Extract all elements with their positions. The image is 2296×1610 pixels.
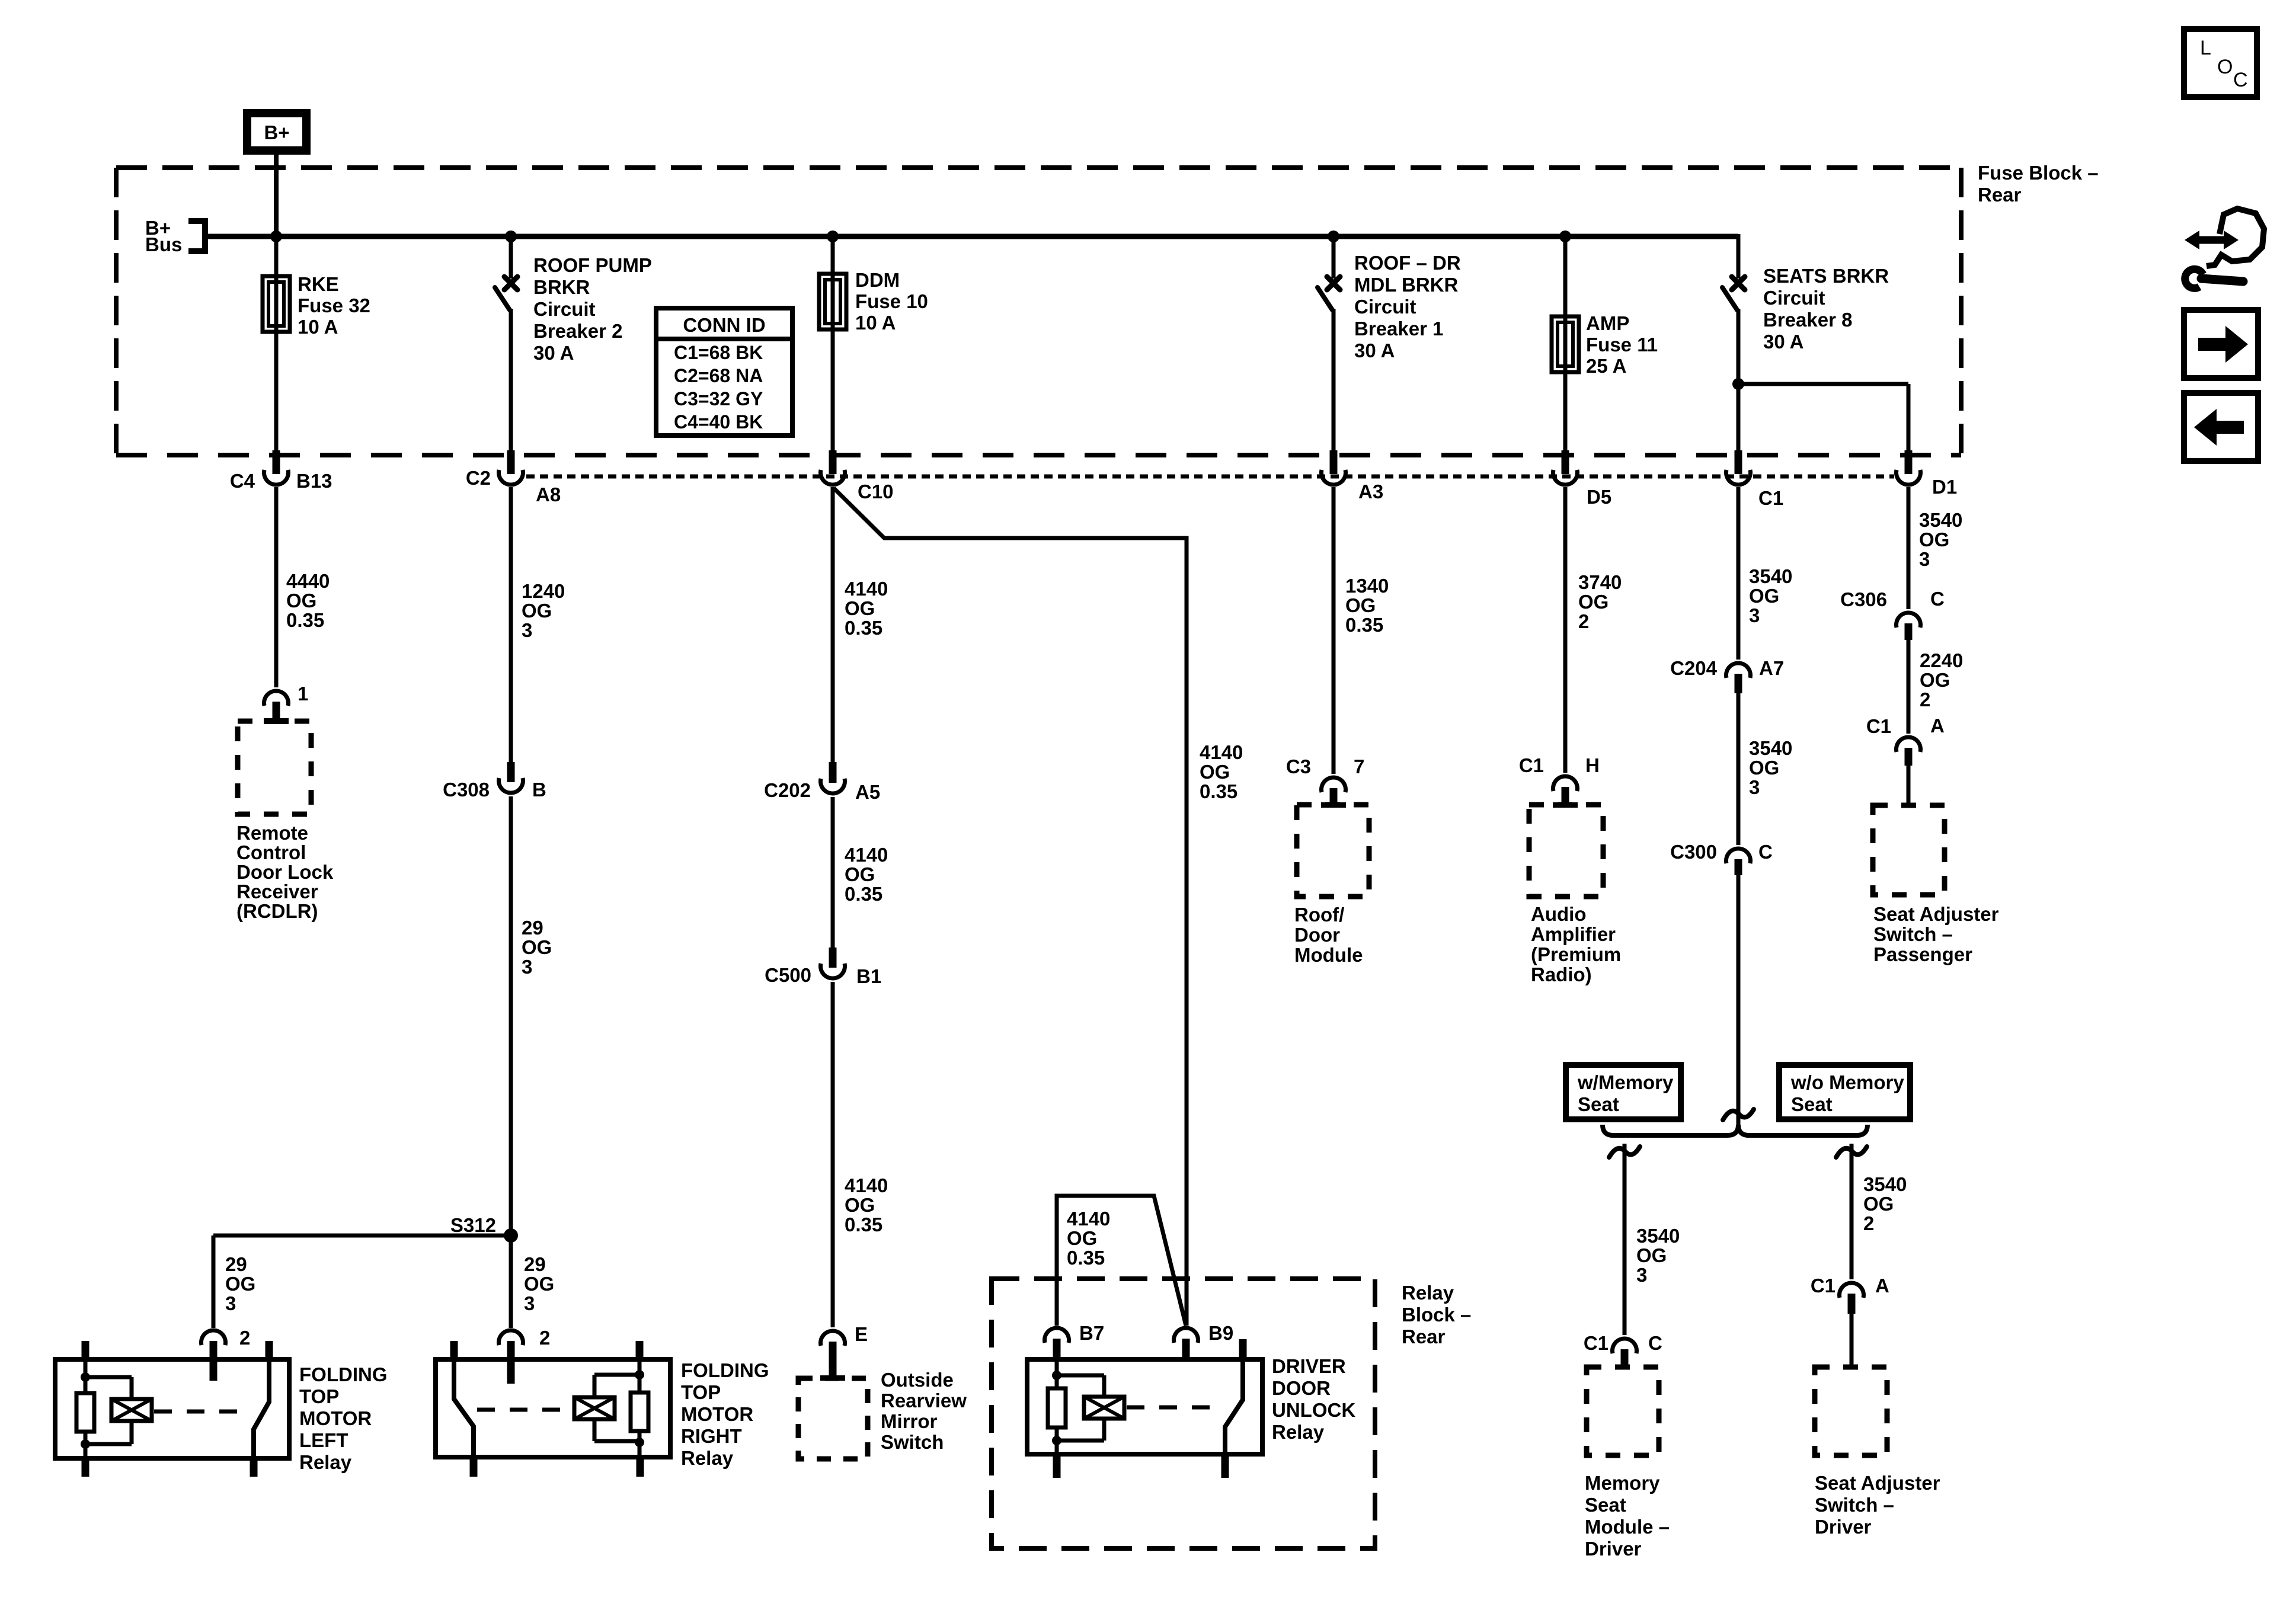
svg-text:A: A [1875, 1275, 1889, 1297]
pin stub top left [82, 1341, 89, 1360]
wire B7 riser [1057, 1196, 1186, 1326]
svg-text:C: C [2233, 69, 2248, 91]
connector C1 A seat adjuster driver [1840, 1283, 1864, 1298]
svg-text:DOOR: DOOR [1272, 1377, 1331, 1399]
svg-text:Fuse 11: Fuse 11 [1586, 334, 1658, 356]
junction on B+ bus x=862 [505, 231, 517, 242]
svg-text:Seat Adjuster: Seat Adjuster [1815, 1472, 1940, 1494]
svg-text:Remote: Remote [236, 822, 308, 844]
svg-text:Relay: Relay [681, 1447, 734, 1469]
svg-text:Driver: Driver [1585, 1538, 1642, 1560]
svg-text:OG: OG [1578, 591, 1609, 613]
svg-text:3: 3 [1749, 604, 1760, 626]
wire to seat adjuster switch passenger [1907, 766, 1911, 807]
svg-text:OG: OG [286, 590, 316, 612]
junction dots driver relay [1052, 1371, 1061, 1380]
wire bus through AMP fuse to connector D5 [1563, 236, 1568, 453]
svg-text:A: A [1930, 715, 1945, 737]
svg-text:D5: D5 [1587, 486, 1611, 508]
dashed actuator link right relay [477, 1408, 572, 1412]
svg-text:C4=40 BK: C4=40 BK [674, 411, 763, 433]
connector C500 B1 (inline) [829, 948, 837, 968]
svg-text:Circuit: Circuit [533, 298, 596, 320]
wire breaker 1 to connector A3 [1332, 309, 1336, 453]
svg-text:Fuse Block –: Fuse Block – [1978, 162, 2099, 184]
connector B7 [1045, 1328, 1069, 1343]
wire 3740 OG 2 [1563, 487, 1568, 773]
relay FOLDING TOP MOTOR RIGHT Relay box [436, 1359, 670, 1457]
svg-text:Seat: Seat [1585, 1494, 1626, 1516]
svg-text:Breaker 2: Breaker 2 [533, 320, 622, 342]
svg-text:C1: C1 [1519, 754, 1544, 776]
svg-text:3: 3 [522, 619, 532, 641]
coil left relay [85, 1375, 132, 1379]
svg-text:Module: Module [1294, 944, 1363, 966]
svg-text:4140: 4140 [845, 578, 888, 600]
svg-text:OG: OG [1636, 1244, 1667, 1266]
resistor driver relay [1055, 1359, 1059, 1388]
svg-text:2: 2 [539, 1327, 550, 1349]
svg-text:TOP: TOP [299, 1385, 339, 1407]
svg-text:OG: OG [1920, 669, 1950, 691]
svg-text:Amplifier: Amplifier [1531, 923, 1616, 945]
svg-text:C3=32 GY: C3=32 GY [674, 388, 763, 409]
wire 4440 OG 0.35 [274, 487, 279, 687]
coil driver relay [1057, 1374, 1104, 1378]
svg-text:Passenger: Passenger [1873, 943, 1972, 965]
svg-text:Seat: Seat [1791, 1093, 1833, 1115]
svg-text:B+: B+ [264, 121, 289, 143]
option split brace [1603, 1125, 1868, 1135]
svg-text:B13: B13 [296, 470, 332, 492]
circuit breaker ROOF PUMP BRKR Circuit Breaker 2 30A [504, 277, 517, 290]
svg-text:Rearview: Rearview [881, 1390, 967, 1411]
svg-text:RIGHT: RIGHT [681, 1425, 742, 1447]
wire bus through RKE fuse to connector C4 [274, 236, 279, 453]
svg-text:D1: D1 [1932, 476, 1957, 498]
svg-text:3540: 3540 [1919, 509, 1962, 531]
connector D1 (fuse block) [1905, 450, 1913, 474]
relay FOLDING TOP MOTOR LEFT Relay box [55, 1359, 289, 1458]
svg-text:OG: OG [225, 1273, 255, 1295]
svg-text:(RCDLR): (RCDLR) [236, 900, 318, 922]
svg-text:Roof/: Roof/ [1294, 904, 1344, 926]
wire breaker 2 to connector C2 [509, 309, 513, 453]
component Seat Adjuster Switch - Driver dashed box [1815, 1367, 1887, 1455]
svg-text:O: O [2217, 56, 2233, 78]
svg-text:C1=68 BK: C1=68 BK [674, 342, 763, 363]
wire 2240 OG 2 [1907, 640, 1911, 734]
switch blade driver relay [1225, 1359, 1243, 1454]
connector C204 A7 (inline) [1726, 663, 1751, 678]
svg-text:(Premium: (Premium [1531, 943, 1621, 965]
wire 29 OG 3 to S312 [509, 796, 513, 1235]
wire break w/Memory [1609, 1147, 1640, 1157]
svg-text:3740: 3740 [1578, 571, 1622, 593]
svg-text:29: 29 [225, 1253, 247, 1275]
svg-text:Audio: Audio [1531, 903, 1586, 925]
svg-text:C308: C308 [443, 779, 490, 801]
wire 3540 OG 3 C204 to C300 [1737, 693, 1741, 845]
svg-text:30 A: 30 A [533, 342, 574, 364]
component Roof/Door Module dashed box [1297, 805, 1369, 897]
svg-text:H: H [1585, 754, 1600, 776]
splice S312 [504, 1228, 518, 1243]
pin stub bottom right [637, 1457, 644, 1477]
svg-text:OG: OG [1749, 757, 1779, 779]
svg-text:30 A: 30 A [1354, 340, 1395, 361]
wire 4140 diagonal route from C10 [834, 488, 1187, 1326]
resistor right relay [638, 1359, 642, 1393]
connector E outside rearview mirror switch [821, 1331, 845, 1346]
pin stub bottom right [1221, 1454, 1229, 1478]
svg-text:A7: A7 [1759, 657, 1784, 679]
dashed actuator link left relay [154, 1410, 252, 1414]
svg-text:UNLOCK: UNLOCK [1272, 1399, 1355, 1421]
wire break main [1723, 1109, 1754, 1120]
wire bus through DDM fuse to connector C10 [831, 236, 835, 453]
svg-text:Circuit: Circuit [1763, 287, 1825, 309]
connector A3 (fuse block) [1330, 450, 1338, 474]
wire bus corner to breaker 8 [1737, 234, 1741, 279]
svg-text:OG: OG [1200, 761, 1230, 783]
junction on B+ bus x=466 [270, 231, 282, 242]
svg-text:29: 29 [524, 1253, 546, 1275]
svg-text:3: 3 [1919, 548, 1930, 570]
svg-text:C204: C204 [1670, 657, 1718, 679]
svg-text:3540: 3540 [1749, 737, 1792, 759]
svg-text:Switch –: Switch – [1873, 923, 1953, 945]
svg-text:w/o Memory: w/o Memory [1790, 1071, 1904, 1093]
connector 2 folding top motor left relay [202, 1330, 226, 1345]
svg-text:AMP: AMP [1586, 312, 1629, 334]
node B+ Bus bracket and label [188, 221, 205, 251]
svg-text:ROOF – DR: ROOF – DR [1354, 252, 1461, 274]
pin stub bottom left [1053, 1454, 1061, 1478]
svg-text:4140: 4140 [1200, 741, 1243, 763]
svg-text:DDM: DDM [855, 269, 900, 291]
svg-text:w/Memory: w/Memory [1577, 1071, 1674, 1093]
relay block rear dashed box [992, 1279, 1375, 1548]
svg-text:3540: 3540 [1749, 565, 1792, 587]
table CONN ID [656, 308, 792, 436]
svg-text:Control: Control [236, 841, 306, 863]
connector 2 folding top motor right relay [499, 1330, 523, 1345]
svg-text:C10: C10 [858, 481, 894, 502]
svg-text:Door: Door [1294, 924, 1340, 946]
svg-text:A8: A8 [536, 484, 561, 505]
svg-text:Breaker 8: Breaker 8 [1763, 309, 1852, 331]
svg-text:Fuse 10: Fuse 10 [855, 290, 928, 312]
svg-text:Switch: Switch [881, 1431, 944, 1453]
junction on B+ bus x=2641 [1559, 231, 1571, 242]
svg-text:B9: B9 [1208, 1322, 1233, 1344]
svg-text:4140: 4140 [1067, 1208, 1110, 1230]
fuse DDM Fuse 10 10A [819, 274, 846, 329]
switch blade left relay [254, 1359, 269, 1458]
circuit breaker SEATS BRKR Circuit Breaker 8 30A [1732, 277, 1745, 290]
icon back arrow box [2184, 393, 2258, 461]
svg-text:A3: A3 [1358, 481, 1383, 502]
svg-text:OG: OG [845, 1194, 875, 1216]
connector B9 [1174, 1328, 1198, 1343]
connector C1 (fuse block, seats) [1735, 450, 1742, 474]
svg-text:FOLDING: FOLDING [299, 1363, 387, 1385]
svg-text:C2=68 NA: C2=68 NA [674, 365, 763, 386]
svg-text:OG: OG [1345, 594, 1376, 616]
pin stub top left [450, 1341, 458, 1360]
wire S312 to right relay [509, 1235, 513, 1328]
svg-text:OG: OG [524, 1273, 554, 1295]
svg-text:Block –: Block – [1402, 1304, 1471, 1326]
pin stub top right [266, 1341, 273, 1360]
option label w/o Memory Seat [1779, 1065, 1910, 1119]
connector C202 A5 (inline) [829, 762, 837, 783]
switch blade right relay [454, 1359, 474, 1457]
connector C1 C memory seat module [1613, 1339, 1637, 1353]
svg-text:C1: C1 [1584, 1332, 1609, 1354]
icon hood release / wrench [2196, 236, 2227, 244]
svg-text:7: 7 [1354, 756, 1364, 777]
pin stub bottom right [250, 1458, 258, 1477]
option label w/Memory Seat [1566, 1065, 1681, 1119]
svg-text:LEFT: LEFT [299, 1429, 348, 1451]
svg-text:Radio): Radio) [1531, 964, 1592, 985]
component Seat Adjuster Switch - Passenger dashed box [1873, 805, 1945, 895]
svg-text:4440: 4440 [286, 570, 330, 592]
junction dots right relay [635, 1370, 644, 1379]
svg-text:C: C [1648, 1332, 1662, 1354]
wire bus to breaker 2 [509, 236, 513, 279]
wire 4140 OG 0.35 C202 to C500 [831, 797, 835, 949]
svg-text:1240: 1240 [522, 580, 565, 602]
svg-text:C202: C202 [764, 779, 811, 801]
svg-text:OG: OG [1749, 585, 1779, 607]
svg-text:B1: B1 [856, 965, 881, 987]
circuit breaker ROOF - DR MDL BRKR Circuit Breaker 1 30A [1327, 277, 1340, 290]
svg-text:3: 3 [1636, 1264, 1647, 1286]
pin stub bottom left [470, 1457, 478, 1477]
svg-text:SEATS BRKR: SEATS BRKR [1763, 265, 1889, 287]
svg-text:S312: S312 [450, 1214, 496, 1236]
svg-text:OG: OG [845, 597, 875, 619]
relay DRIVER DOOR UNLOCK Relay box [1027, 1359, 1262, 1454]
svg-text:C1: C1 [1758, 487, 1783, 509]
svg-text:0.35: 0.35 [1200, 780, 1237, 802]
svg-text:Rear: Rear [1402, 1326, 1446, 1347]
svg-text:Circuit: Circuit [1354, 296, 1416, 318]
svg-text:3540: 3540 [1863, 1173, 1907, 1195]
wire 3540 OG 3 D1 to C306 [1907, 487, 1911, 609]
svg-text:Fuse 32: Fuse 32 [298, 295, 370, 316]
svg-text:C: C [1758, 841, 1773, 863]
svg-text:FOLDING: FOLDING [681, 1359, 769, 1381]
icon LOC box [2184, 29, 2257, 97]
svg-text:2: 2 [1578, 610, 1589, 632]
connector pin 1 RCDLR [264, 691, 289, 706]
svg-text:1: 1 [298, 683, 308, 705]
fuse block Fuse Block - Rear dashed outline [116, 165, 1961, 170]
svg-text:2: 2 [1920, 689, 1930, 710]
svg-text:3: 3 [1749, 776, 1760, 798]
svg-text:Rear: Rear [1978, 184, 2022, 206]
svg-text:C3: C3 [1286, 756, 1311, 777]
svg-text:C300: C300 [1670, 841, 1717, 863]
svg-text:BRKR: BRKR [533, 276, 590, 298]
resistor left relay [84, 1359, 88, 1393]
icon next arrow box [2184, 310, 2258, 378]
svg-text:E: E [855, 1323, 868, 1345]
wire w/Memory branch [1623, 1144, 1627, 1335]
fuse RKE Fuse 32 10A [263, 276, 290, 332]
svg-text:CONN ID: CONN ID [683, 314, 765, 336]
svg-text:C1: C1 [1866, 715, 1891, 737]
svg-text:MDL BRKR: MDL BRKR [1354, 274, 1459, 296]
svg-text:2240: 2240 [1920, 649, 1963, 671]
svg-text:Seat: Seat [1578, 1093, 1619, 1115]
wire 1340 OG 0.35 [1332, 487, 1336, 774]
svg-text:C: C [1930, 588, 1945, 610]
svg-text:C1: C1 [1811, 1275, 1835, 1297]
coil right relay [594, 1373, 639, 1377]
fuse AMP Fuse 11 25A [1552, 316, 1579, 372]
connector C1 H audio amplifier [1553, 776, 1577, 791]
svg-text:Memory: Memory [1585, 1472, 1660, 1494]
wire w/o Memory branch [1850, 1144, 1854, 1279]
svg-text:ROOF PUMP: ROOF PUMP [533, 254, 652, 276]
wire 4140 OG 0.35 C10 to C202 [831, 487, 835, 763]
svg-text:10 A: 10 A [855, 312, 896, 334]
svg-text:A5: A5 [855, 781, 880, 803]
svg-text:10 A: 10 A [298, 316, 338, 338]
wire 4140 OG 0.35 C500 to E [831, 982, 835, 1327]
svg-text:Relay: Relay [1402, 1282, 1454, 1304]
connector C308 B (inline) [507, 762, 515, 782]
svg-text:Module –: Module – [1585, 1516, 1670, 1538]
svg-text:0.35: 0.35 [1345, 614, 1383, 636]
wire bus to breaker 1 [1332, 236, 1336, 279]
svg-text:3: 3 [522, 956, 532, 978]
svg-text:TOP: TOP [681, 1381, 721, 1403]
wire break w/o Memory [1836, 1147, 1867, 1157]
svg-text:DRIVER: DRIVER [1272, 1355, 1346, 1377]
dashed actuator link driver relay [1127, 1406, 1222, 1410]
wire to D1 branch [1738, 382, 1908, 386]
connector D5 (fuse block) [1562, 450, 1569, 474]
svg-text:C2: C2 [466, 467, 491, 489]
svg-text:C500: C500 [765, 964, 811, 986]
connector C2 A8 (fuse block) [507, 450, 515, 474]
pin stub top right [1239, 1339, 1247, 1360]
svg-text:Bus: Bus [145, 233, 182, 255]
component Audio Amplifier (Premium Radio) dashed box [1529, 805, 1603, 897]
svg-text:RKE: RKE [298, 273, 339, 295]
svg-text:0.35: 0.35 [845, 1214, 882, 1235]
svg-text:0.35: 0.35 [845, 617, 882, 639]
svg-text:0.35: 0.35 [286, 609, 324, 631]
connector C10 (fuse block) [829, 450, 837, 474]
connector C4 B13 (fuse block) [273, 450, 280, 474]
svg-text:B: B [532, 779, 546, 801]
connector C300 C (inline) [1726, 849, 1751, 863]
svg-text:29: 29 [522, 917, 543, 939]
wire S312 to left relay [213, 1234, 511, 1238]
svg-text:3540: 3540 [1636, 1225, 1680, 1247]
svg-text:0.35: 0.35 [845, 883, 882, 905]
svg-text:L: L [2200, 37, 2211, 59]
svg-text:Receiver: Receiver [236, 881, 318, 902]
svg-text:OG: OG [1919, 529, 1949, 550]
junction on B+ bus x=1405 [827, 231, 839, 242]
junction on B+ bus x=2250 [1328, 231, 1339, 242]
svg-text:Relay: Relay [1272, 1421, 1325, 1443]
wire 3540 OG 3 C1 to C204 [1737, 487, 1741, 660]
wire 1240 OG 3 [509, 487, 513, 763]
svg-text:2: 2 [1863, 1212, 1874, 1234]
power symbol B+ [247, 113, 306, 151]
svg-text:C4: C4 [230, 470, 255, 492]
connector C1 A seat adjuster passenger [1896, 737, 1920, 752]
svg-text:C306: C306 [1840, 588, 1887, 610]
svg-text:Relay: Relay [299, 1451, 352, 1473]
component Remote Control Door Lock Receiver (RCDLR) dashed box [238, 721, 311, 814]
svg-text:3: 3 [524, 1292, 535, 1314]
wire breaker 8 to connector C1 [1737, 309, 1741, 453]
svg-text:OG: OG [1863, 1193, 1894, 1215]
wire B+ to bus [274, 151, 279, 236]
svg-text:30 A: 30 A [1763, 331, 1803, 353]
pin stub top right [636, 1341, 644, 1360]
svg-text:Driver: Driver [1815, 1516, 1872, 1538]
wire B+ bus [205, 234, 1738, 239]
junction seats brkr split [1732, 378, 1744, 390]
svg-text:OG: OG [845, 863, 875, 885]
component Outside Rearview Mirror Switch dashed box [798, 1378, 868, 1459]
svg-text:1340: 1340 [1345, 575, 1389, 597]
svg-text:Outside: Outside [881, 1369, 954, 1391]
wire to seat adjuster switch driver [1850, 1314, 1854, 1369]
svg-text:25 A: 25 A [1586, 355, 1626, 377]
pin stub bottom left [82, 1458, 89, 1477]
svg-text:MOTOR: MOTOR [681, 1403, 753, 1425]
svg-text:Switch –: Switch – [1815, 1494, 1894, 1516]
svg-text:Breaker 1: Breaker 1 [1354, 318, 1443, 340]
svg-text:4140: 4140 [845, 844, 888, 866]
connector C306 C (inline) [1896, 613, 1920, 628]
svg-text:0.35: 0.35 [1067, 1247, 1105, 1269]
svg-text:2: 2 [239, 1327, 250, 1349]
svg-text:OG: OG [1067, 1227, 1097, 1249]
connector C3 7 roof/door module [1322, 777, 1346, 792]
component Memory Seat Module - Driver dashed box [1587, 1367, 1659, 1455]
junction dots left relay [81, 1372, 90, 1382]
svg-text:B7: B7 [1079, 1322, 1104, 1344]
svg-text:OG: OG [522, 936, 552, 958]
svg-text:4140: 4140 [845, 1174, 888, 1196]
connector row dotted line [526, 475, 1894, 479]
svg-text:MOTOR: MOTOR [299, 1407, 372, 1429]
svg-text:Door Lock: Door Lock [236, 861, 334, 883]
svg-text:Seat Adjuster: Seat Adjuster [1873, 903, 1999, 925]
svg-text:OG: OG [522, 600, 552, 622]
svg-text:Mirror: Mirror [881, 1410, 938, 1432]
svg-text:3: 3 [225, 1292, 236, 1314]
wire C300 to option split [1737, 875, 1741, 1130]
